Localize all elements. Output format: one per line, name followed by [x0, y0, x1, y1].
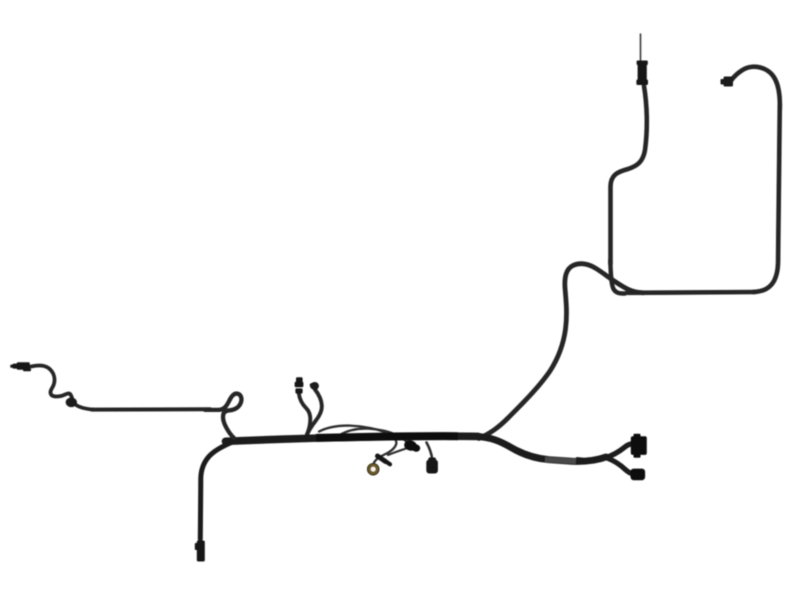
wire long thin horizontal left [92, 407, 210, 411]
sleeve segment near ring terminal [378, 456, 386, 462]
trunk slope right [476, 436, 606, 461]
wire split upper to rect connector [606, 444, 634, 458]
connector bottom left [195, 541, 205, 562]
square connector top right [721, 77, 734, 87]
wire right loop top arc to square connector [732, 67, 780, 110]
trunk left branch down [200, 442, 233, 539]
connector right pigtail head [309, 382, 319, 390]
rect connector right [631, 434, 647, 458]
wire to mid cylinder connector [427, 443, 433, 460]
mid cylinder connector [426, 458, 438, 474]
wire branch from trunk up to eyelet [479, 264, 643, 439]
wire probe lead from probe body down to right loop [611, 86, 647, 264]
probe connector body [636, 61, 648, 86]
wire split lower to small cylinder connector [607, 458, 634, 474]
wire thin loop A over trunk to ring terminal [319, 426, 396, 463]
wire right loop bottom-left eyelet [610, 260, 625, 294]
wire right loop bottom run [627, 290, 755, 295]
wire left snake [31, 365, 93, 409]
wire thin loop B over trunk to bulb connector [340, 429, 409, 444]
wire short link sleeve to bulb [388, 449, 406, 456]
probe pin [640, 34, 642, 62]
trunk gray band mark [576, 457, 583, 464]
trunk gray wrap segment [545, 459, 576, 461]
trunk wrap thick segment [316, 436, 458, 438]
wire teardrop loop at trunk left [205, 394, 241, 438]
small cylinder connector right [631, 469, 646, 481]
wire right loop right side up [753, 104, 780, 292]
wire right pigtail lead [307, 390, 322, 436]
trunk main horizontal [226, 436, 479, 441]
sleeve segment 2 near ring terminal [385, 461, 391, 465]
bulb connector [403, 439, 421, 453]
ring terminal gold [368, 464, 379, 475]
connector left pigtail plug [295, 377, 304, 393]
connector far left [10, 362, 31, 371]
round clip on left snake [66, 398, 77, 408]
wire left pigtail lead [299, 393, 311, 435]
